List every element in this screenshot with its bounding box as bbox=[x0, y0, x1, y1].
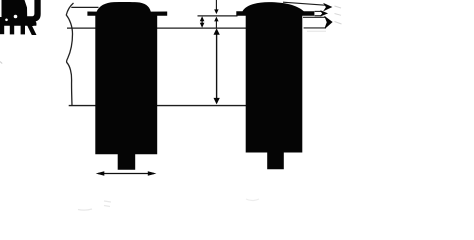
small vertical dimension (head height) bbox=[200, 16, 205, 28]
break line bbox=[66, 3, 73, 106]
ghost line under body leader bbox=[307, 30, 326, 32]
corner R leg bbox=[27, 25, 37, 35]
corner letter stems bbox=[0, 24, 4, 34]
faint left edge tick bbox=[0, 62, 2, 64]
joint surface line bbox=[67, 27, 97, 29]
leader lines brim bbox=[315, 10, 322, 12]
corner letter U bbox=[27, 0, 41, 22]
leader chevron crown bbox=[324, 4, 331, 11]
top sheet surface line bbox=[71, 6, 98, 8]
leader chevron body bbox=[325, 17, 332, 28]
leader line crown bbox=[283, 2, 325, 5]
corner letter band PR tops bbox=[0, 21, 36, 26]
ghost marks right of chevrons bbox=[335, 6, 342, 8]
ghost marks bottom bbox=[78, 209, 92, 210]
bottom sheet line bbox=[69, 105, 97, 107]
outside arrow above line A bbox=[214, 0, 218, 14]
right rivet silhouette bbox=[236, 2, 314, 169]
long vertical dimension (grip length) bbox=[214, 28, 220, 104]
corner text remnant blob bbox=[0, 0, 27, 26]
outside arrow below line A bbox=[214, 17, 218, 28]
left rivet silhouette bbox=[87, 2, 167, 170]
leader lines body bbox=[303, 16, 326, 18]
head seat line A bbox=[198, 15, 238, 17]
leader chevron brim bbox=[321, 11, 328, 16]
horizontal diameter dimension bbox=[96, 171, 157, 175]
